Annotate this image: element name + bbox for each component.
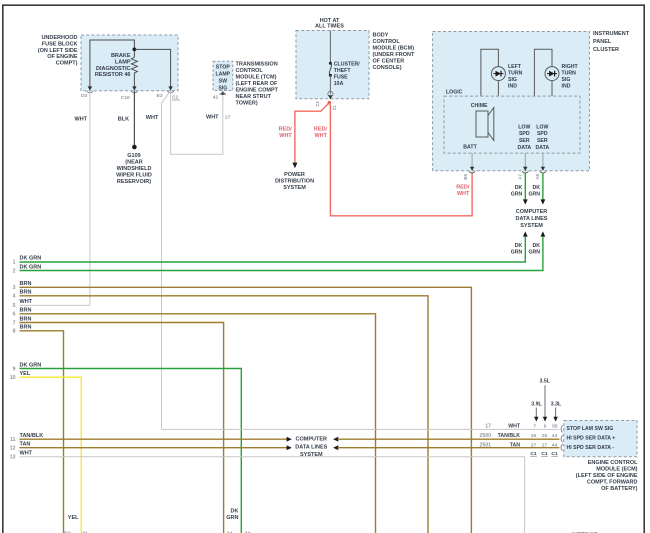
svg-text:SW: SW (219, 78, 227, 84)
arrowhead A7 down (523, 199, 528, 204)
svg-text:RIGHT: RIGHT (562, 64, 579, 70)
wire DK GRN from A7 down (524, 173, 526, 200)
wire label DK GRN at A7 (511, 185, 523, 198)
ECM connector arc row 2 (561, 435, 563, 442)
svg-text:DK: DK (533, 243, 541, 249)
wire 8 BRN (20, 331, 64, 533)
svg-text:10: 10 (10, 375, 16, 381)
wire fuse block internal D3 branch (90, 40, 134, 87)
svg-text:HI SPD SER DATA +: HI SPD SER DATA + (567, 436, 616, 442)
svg-text:GRN: GRN (511, 250, 523, 256)
svg-text:DISTRIBUTION: DISTRIBUTION (275, 179, 314, 185)
pin D3 arrowhead (88, 86, 92, 90)
svg-text:DK GRN: DK GRN (20, 264, 42, 270)
underhood fuse block label (38, 35, 78, 66)
computer data lines system label top (516, 209, 548, 229)
computer data lines system label bottom (295, 437, 327, 458)
svg-text:COMPUTER: COMPUTER (296, 437, 328, 443)
svg-text:WHT: WHT (314, 133, 327, 139)
svg-text:BATT: BATT (463, 145, 477, 151)
wire 4 BRN (20, 296, 429, 533)
wire batt logic to cluster edge (471, 153, 473, 167)
svg-text:WHT: WHT (20, 451, 33, 457)
svg-text:SER: SER (537, 138, 548, 144)
ECM box (564, 421, 637, 457)
svg-text:FUSE BLOCK: FUSE BLOCK (42, 42, 78, 48)
svg-text:SYSTEM: SYSTEM (300, 452, 323, 458)
svg-text:LAMP: LAMP (115, 60, 131, 66)
svg-text:DATA: DATA (517, 145, 531, 151)
LED left turn sig ind (491, 67, 505, 81)
svg-text:SIG: SIG (508, 77, 517, 83)
ground G109 dot (132, 145, 137, 150)
svg-text:SYSTEM: SYSTEM (283, 185, 306, 191)
svg-text:BRN: BRN (20, 316, 32, 322)
svg-text:TAN: TAN (510, 443, 521, 449)
wire 11 TAN/BLK left part (20, 438, 288, 440)
svg-text:TAN: TAN (20, 442, 31, 448)
instrument panel cluster label (593, 31, 630, 53)
TCM pin 42 connector curve (220, 93, 227, 95)
svg-text:A8: A8 (535, 174, 540, 180)
svg-text:CHIME: CHIME (471, 103, 488, 109)
svg-text:SIG: SIG (562, 77, 571, 83)
svg-text:OF BATTERY): OF BATTERY) (601, 486, 638, 492)
svg-text:WHT: WHT (457, 191, 470, 197)
svg-text:PANEL: PANEL (593, 39, 612, 45)
arrowhead power distribution (292, 163, 297, 169)
svg-text:RED/: RED/ (314, 127, 328, 133)
svg-text:(LEFT REAR OF: (LEFT REAR OF (236, 81, 278, 87)
svg-text:BRAKE: BRAKE (111, 53, 131, 59)
wire 2500 TAN/BLK right part (338, 438, 560, 440)
svg-text:ENGINE CONTROL: ENGINE CONTROL (588, 460, 638, 466)
svg-text:LOW: LOW (536, 124, 548, 130)
svg-text:STOP: STOP (216, 64, 231, 70)
svg-text:POWER: POWER (284, 172, 305, 178)
svg-text:26: 26 (542, 433, 548, 439)
svg-text:IND: IND (508, 84, 517, 90)
wire BLK from C10 to ground (133, 91, 135, 146)
svg-text:D3: D3 (81, 93, 88, 99)
svg-text:(NEAR: (NEAR (125, 160, 142, 166)
pin A7 connector (522, 167, 528, 173)
svg-text:DK: DK (515, 243, 523, 249)
svg-text:7: 7 (533, 424, 536, 430)
svg-text:2500: 2500 (479, 433, 491, 439)
svg-text:TAN/BLK: TAN/BLK (20, 433, 44, 439)
ground G109 label (116, 153, 152, 185)
wire 17 WHT row to ECM (162, 428, 560, 430)
svg-text:BRN: BRN (20, 281, 32, 287)
ECM connector arc row 1 (561, 425, 563, 432)
fuse F cluster/theft 10A (329, 62, 332, 77)
wire 3 BRN (20, 287, 472, 533)
svg-text:HI SPD SER DATA -: HI SPD SER DATA - (567, 445, 615, 451)
pin B5 connector (469, 167, 475, 173)
svg-text:2501: 2501 (479, 443, 491, 449)
instrument panel cluster box (433, 32, 590, 171)
svg-text:26: 26 (531, 433, 537, 439)
svg-text:DK GRN: DK GRN (20, 256, 42, 262)
wire WHT branch from C2 to TCM pin 42 (171, 91, 223, 155)
arrowhead wire 11 right (287, 437, 292, 442)
svg-text:WHT: WHT (146, 115, 159, 121)
svg-text:1: 1 (13, 260, 16, 266)
svg-text:17: 17 (485, 424, 491, 430)
svg-text:RED/: RED/ (279, 127, 293, 133)
LED right turn sig ind (545, 67, 559, 81)
pin C10 arrowhead (132, 86, 136, 90)
connector label C2 underlined (172, 95, 180, 101)
LED right turn label (562, 64, 579, 90)
svg-text:SER: SER (519, 138, 530, 144)
svg-text:DATA: DATA (535, 145, 549, 151)
svg-text:13: 13 (10, 455, 16, 461)
svg-text:DK: DK (515, 185, 523, 191)
wire RED/WHT to power distribution (295, 103, 329, 163)
fuse label cluster/theft fuse 10A (334, 61, 360, 87)
svg-text:WHT: WHT (75, 117, 88, 123)
svg-text:DK GRN: DK GRN (20, 362, 42, 368)
arrow 3.9L to pin 7 (534, 408, 538, 422)
wire label RED/WHT at B5 (456, 184, 470, 197)
wire label DK GRN bottom (226, 509, 238, 522)
svg-text:YEL: YEL (20, 371, 31, 377)
svg-text:BLK: BLK (118, 117, 129, 123)
wire 1 corner label DK GRN (511, 243, 523, 256)
svg-text:3.3L: 3.3L (551, 401, 562, 407)
svg-text:OF ENGINE: OF ENGINE (47, 54, 78, 60)
arrow 3.3L to pin 55 (553, 408, 557, 422)
svg-text:(UNDER FRONT: (UNDER FRONT (373, 52, 415, 58)
wire A8 logic to cluster edge (542, 153, 544, 167)
pin A8 connector (540, 167, 546, 173)
svg-text:WINDSHIELD: WINDSHIELD (117, 166, 152, 172)
svg-text:(LEFT SIDE OF ENGINE: (LEFT SIDE OF ENGINE (576, 473, 638, 479)
TCM pin 42 arrowhead up (221, 91, 225, 95)
arrowhead wire 2501 left (333, 445, 338, 450)
svg-text:BRN: BRN (20, 325, 32, 331)
chime speaker symbol (476, 108, 494, 141)
svg-text:8: 8 (13, 329, 16, 335)
wire 12 TAN left part (20, 447, 288, 449)
svg-text:27: 27 (542, 443, 548, 449)
arrowhead A8 down (541, 199, 546, 204)
wire label RED/WHT right (314, 127, 328, 140)
svg-text:A7: A7 (517, 174, 522, 180)
svg-text:GRN: GRN (528, 192, 540, 198)
svg-text:COMPT, FORWARD: COMPT, FORWARD (587, 479, 638, 485)
svg-text:10A: 10A (334, 81, 344, 87)
svg-text:11: 11 (10, 437, 16, 443)
svg-text:THEFT: THEFT (334, 68, 352, 74)
svg-text:SPD: SPD (537, 131, 548, 137)
TCM box signal text (215, 64, 230, 91)
svg-text:2: 2 (13, 268, 16, 274)
power distribution system label (275, 172, 314, 191)
svg-text:INSTRUMENT: INSTRUMENT (593, 31, 630, 37)
wire fuse block internal C2 branch (134, 49, 170, 86)
svg-text:GRN: GRN (511, 192, 523, 198)
wire 6 BRN (20, 314, 376, 533)
svg-text:OF CENTER: OF CENTER (373, 59, 405, 65)
svg-text:WHT: WHT (20, 299, 33, 305)
svg-text:FUSE: FUSE (334, 74, 348, 80)
svg-text:BODY: BODY (373, 33, 389, 39)
wire DK GRN from A8 down (542, 173, 544, 200)
svg-text:BRN: BRN (20, 308, 32, 314)
svg-text:E3: E3 (157, 93, 163, 99)
svg-text:3.5L: 3.5L (540, 379, 551, 385)
svg-text:DATA LINES: DATA LINES (295, 445, 327, 451)
svg-text:9: 9 (544, 424, 547, 430)
svg-text:7: 7 (13, 320, 16, 326)
BCM hot at all times label (315, 18, 344, 29)
svg-text:RESISTOR 46: RESISTOR 46 (95, 72, 131, 78)
svg-text:SIG: SIG (218, 85, 227, 91)
svg-text:CLUSTER/: CLUSTER/ (334, 61, 360, 67)
svg-text:17: 17 (225, 114, 231, 120)
pin E3 arrowhead (168, 86, 172, 90)
svg-text:DATA LINES: DATA LINES (516, 216, 548, 222)
ECM module label (576, 460, 638, 492)
svg-text:SPD: SPD (519, 131, 530, 137)
svg-text:42: 42 (213, 95, 219, 101)
wire WHT from D3 down to row 5 (89, 91, 91, 306)
wire right turn loop (534, 49, 552, 96)
underhood fuse block box (81, 35, 178, 91)
wire 7 BRN (20, 323, 224, 533)
svg-text:ALL TIMES: ALL TIMES (315, 23, 344, 29)
pin C10 connector curves (131, 91, 138, 93)
svg-text:CONTROL: CONTROL (373, 39, 401, 45)
wire 1 DK GRN (20, 237, 526, 262)
BCM bottom connector circle and arrowhead (328, 91, 333, 99)
wire 13 WHT (20, 457, 525, 533)
wire 5 WHT (20, 304, 90, 306)
svg-text:43: 43 (552, 433, 558, 439)
LED left turn label (508, 64, 523, 90)
ECM row signal labels (567, 426, 616, 451)
svg-text:TOWER): TOWER) (236, 100, 258, 106)
svg-text:27: 27 (531, 443, 537, 449)
arrowhead wire 12 right (287, 445, 292, 450)
svg-text:LAMP: LAMP (215, 71, 230, 77)
wire BCM feed from top (329, 31, 331, 63)
svg-text:B5: B5 (463, 174, 468, 180)
svg-text:MODULE (ECM): MODULE (ECM) (596, 466, 637, 472)
svg-text:9: 9 (13, 366, 16, 372)
low spd ser data label A7 (517, 124, 531, 150)
wire A7 logic to cluster edge (524, 153, 526, 167)
svg-text:GRN: GRN (226, 515, 238, 521)
svg-text:LOGIC: LOGIC (446, 90, 463, 96)
svg-text:IND: IND (562, 84, 571, 90)
wire RED/WHT from BCM to cluster B5 (329, 103, 472, 216)
wire label RED/WHT left (279, 127, 293, 140)
svg-text:WIPER FLUID: WIPER FLUID (116, 173, 152, 179)
pin E3 connector curves (167, 91, 174, 93)
svg-text:C10: C10 (121, 95, 130, 101)
svg-text:WHT: WHT (508, 424, 521, 430)
node red junction below BCM (328, 101, 331, 104)
arrow 3.5L to pin 9 (543, 385, 547, 421)
svg-text:RESERVOIR): RESERVOIR) (117, 179, 151, 185)
svg-text:COMPT): COMPT) (56, 60, 78, 66)
logic box (444, 96, 580, 153)
svg-text:TURN: TURN (562, 71, 577, 77)
wire 2501 TAN right part (338, 447, 560, 449)
svg-text:MODULE (BCM): MODULE (BCM) (373, 46, 415, 52)
svg-text:4: 4 (13, 294, 16, 300)
wire 2 DK GRN (20, 237, 543, 271)
wire WHT from E3 pin jog to long vertical (162, 91, 171, 430)
svg-text:YEL: YEL (68, 515, 79, 521)
ECM connector arc row 3 (561, 444, 563, 451)
svg-text:RED/: RED/ (456, 184, 470, 190)
svg-text:CLUSTER: CLUSTER (593, 47, 619, 53)
wire 9 DK GRN (20, 369, 242, 533)
svg-text:(ON LEFT SIDE: (ON LEFT SIDE (38, 48, 78, 54)
svg-text:WHT: WHT (279, 133, 292, 139)
svg-text:UNDERHOOD: UNDERHOOD (41, 35, 77, 41)
resistor R46 value label (95, 53, 131, 78)
svg-text:55: 55 (552, 424, 558, 430)
TCM module label (236, 61, 279, 106)
wire left turn loop (481, 49, 499, 96)
svg-text:CONSOLE): CONSOLE) (373, 65, 402, 71)
ECM connector C1 labels underlined (530, 451, 558, 457)
svg-text:31: 31 (332, 105, 337, 110)
svg-text:BRN: BRN (20, 290, 32, 296)
wire label DK GRN at A8 (528, 185, 540, 198)
pin D3 connector curves (87, 91, 94, 93)
svg-text:C2: C2 (315, 101, 320, 107)
svg-text:ENGINE COMPT: ENGINE COMPT (236, 87, 279, 93)
svg-text:3: 3 (13, 285, 16, 291)
svg-text:LOW: LOW (518, 124, 530, 130)
svg-text:WHT: WHT (206, 114, 219, 120)
svg-text:GRN: GRN (528, 250, 540, 256)
TCM stop lamp sw sig box (213, 61, 233, 90)
svg-text:44: 44 (552, 443, 558, 449)
node junction dot in fuse block (133, 48, 137, 52)
svg-text:TRANSMISSION: TRANSMISSION (236, 61, 278, 67)
body control module box (296, 31, 369, 99)
svg-text:MODULE (TCM): MODULE (TCM) (236, 74, 277, 80)
svg-text:DK: DK (231, 509, 239, 515)
resistor R46 brake lamp diagnostic resistor (131, 51, 137, 86)
arrowhead wire 2500 left (333, 437, 338, 442)
svg-text:TURN: TURN (508, 71, 523, 77)
wire 10 YEL (20, 377, 82, 533)
svg-text:G109: G109 (127, 153, 140, 159)
wire fuse to BCM bottom connector (329, 75, 331, 94)
svg-text:STOP LAM SW SIG: STOP LAM SW SIG (567, 426, 614, 432)
svg-text:3.9L: 3.9L (531, 401, 542, 407)
svg-text:12: 12 (10, 446, 16, 452)
svg-text:6: 6 (13, 312, 16, 318)
svg-text:TAN/BLK: TAN/BLK (498, 433, 521, 439)
svg-text:LEFT: LEFT (508, 64, 522, 70)
arrowhead wire 2 up (541, 231, 546, 236)
svg-text:5: 5 (13, 303, 16, 309)
svg-text:SYSTEM: SYSTEM (520, 223, 543, 229)
svg-text:DK: DK (533, 185, 541, 191)
svg-text:COMPUTER: COMPUTER (516, 209, 548, 215)
svg-text:CONTROL: CONTROL (236, 68, 264, 74)
svg-text:NEAR STRUT: NEAR STRUT (236, 94, 272, 100)
arrowhead wire 1 up (523, 231, 528, 236)
wire 2 corner label DK GRN (528, 243, 540, 256)
BCM module label (373, 33, 415, 71)
low spd ser data label A8 (535, 124, 549, 150)
